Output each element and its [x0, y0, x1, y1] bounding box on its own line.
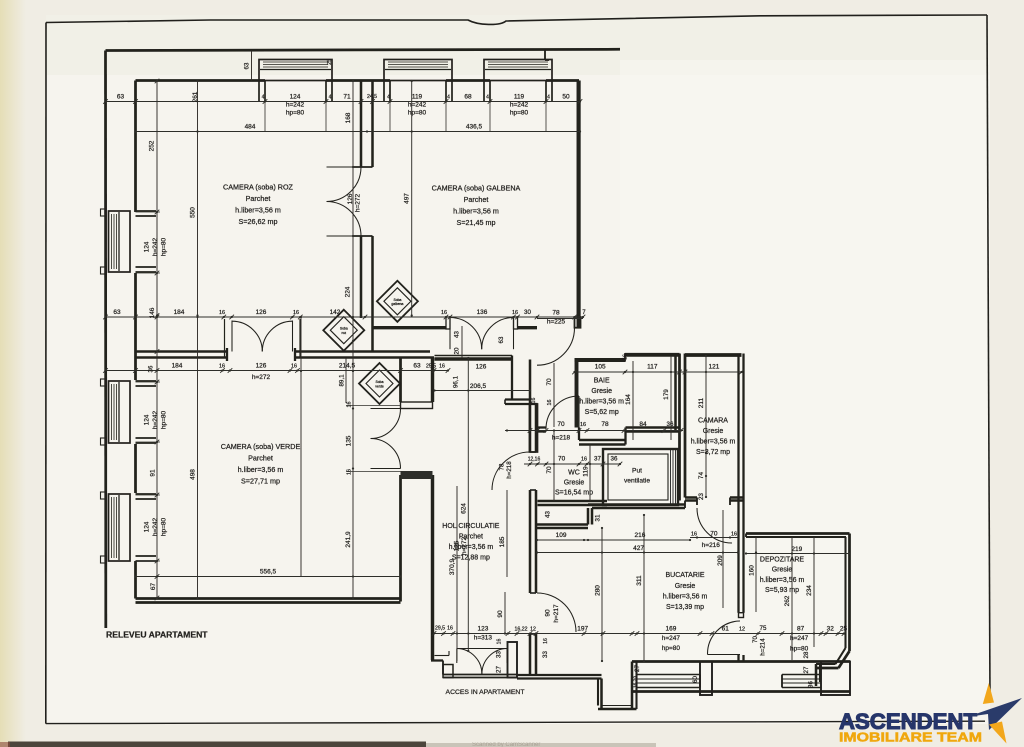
- svg-text:16: 16: [531, 398, 537, 404]
- svg-text:Parchet: Parchet: [464, 195, 489, 204]
- dim lines kitchen y=540 and y=552.5: [537, 539, 690, 541]
- svg-text:hp=80: hp=80: [408, 110, 427, 117]
- svg-text:25,5: 25,5: [426, 364, 436, 370]
- svg-text:32: 32: [827, 626, 835, 633]
- wall: west exterior outer line: [104, 51, 107, 629]
- svg-text:50: 50: [562, 94, 570, 101]
- svg-text:63: 63: [113, 309, 121, 316]
- svg-text:hp=80: hp=80: [662, 645, 681, 652]
- svg-text:556,5: 556,5: [260, 569, 277, 576]
- dim line DEPOZITARE y=553.5: [746, 553, 849, 555]
- svg-text:184: 184: [174, 309, 185, 316]
- svg-text:h=247: h=247: [790, 635, 809, 642]
- door D7 HOL-BUCATARIE (90 h=217): [537, 593, 576, 632]
- svg-text:25: 25: [327, 59, 333, 65]
- scan border bottom: [46, 721, 985, 723]
- jamb: [446, 317, 450, 329]
- svg-text:197: 197: [577, 626, 588, 633]
- svg-text:16,22: 16,22: [515, 627, 528, 633]
- svg-text:498: 498: [190, 469, 197, 480]
- north wall right step: [544, 50, 546, 61]
- svg-text:91: 91: [150, 469, 157, 477]
- dim line BAIE/CAMARA y=372: [575, 371, 742, 373]
- svg-text:h.liber=3,56 m: h.liber=3,56 m: [579, 399, 624, 406]
- scan border left: [45, 23, 47, 724]
- door D6 WC door from HOL (78 h=218): [492, 452, 530, 490]
- svg-text:30: 30: [524, 309, 531, 316]
- svg-text:h=225: h=225: [547, 319, 566, 326]
- svg-text:HOL CIRCULATIE: HOL CIRCULATIE: [442, 523, 500, 530]
- svg-text:Gresie: Gresie: [703, 428, 724, 435]
- svg-text:370,9: 370,9: [449, 558, 456, 575]
- DEPOZITARE walls: [746, 532, 850, 535]
- svg-text:90: 90: [497, 610, 504, 618]
- dim line CAMARA door y=537.5: [690, 537, 738, 539]
- vertical dim x=706 (211/74/23): [705, 356, 707, 497]
- svg-text:RELEVEU APARTAMENT: RELEVEU APARTAMENT: [106, 630, 208, 640]
- svg-text:126: 126: [256, 309, 267, 316]
- svg-text:h=242: h=242: [408, 102, 427, 109]
- svg-text:16: 16: [219, 364, 225, 370]
- svg-text:96,1: 96,1: [453, 375, 460, 388]
- svg-text:119: 119: [412, 94, 423, 101]
- entrance ACCES area: [431, 659, 443, 661]
- svg-text:h=313: h=313: [474, 635, 493, 642]
- door D10 kitchen east door (70 h=214): [707, 621, 740, 655]
- svg-text:70: 70: [558, 456, 566, 463]
- svg-text:78: 78: [499, 463, 506, 470]
- svg-text:verde: verde: [375, 384, 384, 388]
- svg-text:h.liber=3,56 m: h.liber=3,56 m: [663, 594, 708, 601]
- vertical dim chain x=157: [156, 81, 158, 598]
- svg-text:36: 36: [148, 365, 155, 372]
- svg-text:27: 27: [496, 666, 503, 673]
- svg-text:h=218: h=218: [552, 435, 571, 442]
- svg-text:119: 119: [514, 94, 525, 101]
- svg-text:16: 16: [512, 310, 518, 316]
- svg-text:hp=80: hp=80: [286, 110, 305, 117]
- svg-text:211: 211: [698, 397, 705, 408]
- svg-text:206,5: 206,5: [470, 383, 487, 390]
- svg-text:43: 43: [454, 331, 461, 338]
- svg-text:119: 119: [583, 466, 590, 477]
- svg-text:hp=80: hp=80: [510, 110, 529, 117]
- WC south wall: [538, 500, 608, 503]
- svg-text:87: 87: [797, 626, 805, 633]
- svg-text:WC: WC: [568, 470, 580, 477]
- svg-text:16: 16: [580, 422, 586, 428]
- svg-text:S=26,62 mp: S=26,62 mp: [239, 217, 278, 226]
- svg-text:484: 484: [245, 124, 256, 131]
- svg-text:29,5: 29,5: [435, 626, 445, 632]
- svg-text:hp=80: hp=80: [161, 517, 168, 536]
- svg-text:63: 63: [244, 62, 251, 69]
- wall: HOL east: [529, 360, 532, 453]
- door D5 double door VERDE-HOL (135): [371, 408, 401, 410]
- soba galbena stove: [377, 281, 418, 322]
- svg-text:16: 16: [441, 310, 447, 316]
- door D8 BAIE door (70 h=218): [546, 396, 579, 429]
- svg-text:126: 126: [476, 364, 487, 371]
- svg-text:142: 142: [330, 309, 341, 316]
- svg-text:261: 261: [192, 91, 199, 102]
- svg-text:27: 27: [634, 665, 641, 672]
- svg-text:75: 75: [760, 625, 767, 632]
- vertical dim x=457 (370,9): [456, 486, 458, 661]
- svg-text:h=242: h=242: [510, 102, 529, 109]
- wall between ROZ and VERDE: [136, 350, 228, 353]
- svg-text:CAMERA (soba) VERDE: CAMERA (soba) VERDE: [221, 442, 301, 451]
- dimension chain bottom y=633.5: [434, 633, 844, 635]
- wall: north exterior inner: [136, 79, 266, 82]
- window jamb extension lines: [264, 102, 266, 132]
- svg-text:S=3,72 mp: S=3,72 mp: [696, 449, 730, 456]
- svg-text:43: 43: [545, 511, 552, 518]
- svg-text:24,5: 24,5: [367, 94, 377, 100]
- vertical dim x=468.3 (624): [467, 358, 469, 651]
- soba roz stove: [323, 310, 364, 351]
- svg-text:135: 135: [346, 435, 353, 446]
- svg-text:16: 16: [291, 364, 297, 370]
- chamfer: [839, 651, 850, 668]
- svg-text:7: 7: [582, 309, 586, 316]
- svg-text:h=242: h=242: [152, 237, 159, 256]
- CAMARA walls: [685, 353, 742, 357]
- svg-text:16: 16: [691, 532, 697, 538]
- svg-text:184: 184: [172, 363, 183, 370]
- svg-text:126: 126: [347, 193, 354, 204]
- svg-text:160: 160: [748, 565, 755, 576]
- door D12 entrance double door (123 h=313): [457, 648, 507, 650]
- svg-text:hp=80: hp=80: [161, 237, 168, 256]
- svg-text:550: 550: [190, 207, 197, 218]
- svg-text:Put: Put: [632, 468, 642, 475]
- vertical dim x=505 (90): [504, 592, 506, 634]
- vertical dim x=590 (119): [589, 444, 591, 501]
- vertical dim x=756 (160): [755, 537, 757, 612]
- svg-text:146: 146: [149, 307, 156, 318]
- dimension chain y=430.5: [505, 430, 683, 432]
- svg-text:124: 124: [144, 241, 151, 252]
- svg-text:20: 20: [454, 347, 461, 354]
- svg-text:S=16,54 mp: S=16,54 mp: [555, 490, 593, 497]
- svg-text:241,9: 241,9: [345, 531, 352, 548]
- svg-text:168: 168: [345, 112, 352, 123]
- svg-text:31: 31: [594, 514, 601, 521]
- svg-text:70: 70: [546, 466, 553, 474]
- svg-text:hp=80: hp=80: [790, 646, 809, 653]
- vertical dim x=301: [300, 317, 302, 577]
- dimension chain y=131.5: [136, 131, 581, 133]
- door D1 double door ROZ-VERDE (126 h=272): [231, 321, 233, 352]
- svg-text:h.liber=3,56 m: h.liber=3,56 m: [691, 439, 736, 446]
- svg-text:4: 4: [329, 95, 332, 101]
- svg-text:126: 126: [256, 363, 267, 370]
- svg-text:S=21,45 mp: S=21,45 mp: [457, 218, 496, 227]
- svg-text:Gresie: Gresie: [675, 583, 696, 590]
- window W2 (124): [109, 381, 131, 443]
- svg-text:h=214: h=214: [760, 638, 767, 656]
- svg-text:33: 33: [542, 651, 549, 658]
- svg-text:4: 4: [486, 95, 489, 101]
- svg-text:164: 164: [625, 394, 632, 405]
- svg-text:16: 16: [497, 639, 503, 645]
- svg-text:16: 16: [731, 532, 737, 538]
- wall: west exterior inner: [134, 81, 137, 213]
- svg-text:h=247: h=247: [662, 635, 681, 642]
- svg-text:h=242: h=242: [152, 517, 159, 536]
- svg-text:70: 70: [710, 531, 718, 538]
- svg-text:Parchet: Parchet: [248, 454, 273, 463]
- svg-text:224: 224: [345, 286, 352, 297]
- Put ventilatie shaft: [603, 449, 678, 505]
- svg-text:galbena: galbena: [391, 302, 403, 306]
- svg-text:h.liber=3,56 m: h.liber=3,56 m: [760, 577, 805, 584]
- lobby south wall: [435, 355, 513, 357]
- svg-text:16: 16: [347, 402, 353, 408]
- svg-text:ACCES IN APARTAMENT: ACCES IN APARTAMENT: [446, 689, 525, 696]
- svg-text:109: 109: [556, 532, 567, 539]
- svg-text:216: 216: [634, 532, 645, 539]
- svg-text:4: 4: [547, 95, 550, 101]
- window N1 (124): [259, 60, 332, 81]
- wall: GALBENA east: [577, 81, 581, 328]
- svg-text:117: 117: [647, 364, 658, 371]
- svg-text:36: 36: [808, 681, 815, 688]
- svg-text:S=5,93 mp: S=5,93 mp: [765, 587, 799, 594]
- vertical dim x=644 (311): [643, 515, 645, 661]
- svg-text:179: 179: [663, 389, 670, 400]
- svg-text:124: 124: [290, 94, 301, 101]
- svg-text:h=242: h=242: [286, 102, 305, 109]
- svg-text:16: 16: [447, 626, 453, 632]
- svg-text:68: 68: [464, 94, 472, 101]
- partition wall ROZ/GALBENA: [360, 81, 363, 168]
- wall block: [530, 404, 538, 452]
- svg-text:33: 33: [496, 651, 503, 658]
- svg-text:234: 234: [806, 585, 813, 596]
- vertical dim x=723 (209): [722, 510, 724, 608]
- svg-text:12: 12: [530, 627, 536, 633]
- vertical dim x=197.5: [197, 81, 199, 598]
- scan border top: [46, 15, 987, 24]
- svg-text:Scanned by CamScanner: Scanned by CamScanner: [472, 742, 540, 747]
- jamb block: [443, 665, 453, 678]
- corner pier: [821, 662, 850, 696]
- svg-text:252: 252: [149, 140, 156, 151]
- svg-text:123: 123: [477, 626, 488, 633]
- vertical dim x=346 (89,1): [345, 358, 347, 403]
- svg-text:h=242: h=242: [152, 410, 159, 429]
- dimension chain y=370.5: [106, 370, 449, 372]
- svg-text:Gresie: Gresie: [591, 388, 612, 395]
- VERDE south wall: [136, 597, 401, 600]
- svg-text:311: 311: [636, 575, 643, 586]
- window N2 (119): [384, 60, 452, 81]
- wall: north exterior outer line: [106, 49, 621, 50]
- svg-text:63: 63: [117, 94, 125, 101]
- svg-text:136: 136: [477, 309, 488, 316]
- GALBENA south wall: [373, 316, 447, 318]
- svg-text:60: 60: [692, 676, 699, 683]
- pier: [700, 662, 712, 696]
- svg-text:124: 124: [144, 414, 151, 425]
- svg-text:280: 280: [594, 585, 601, 596]
- svg-text:4: 4: [262, 95, 265, 101]
- vertical dim x=353: [352, 81, 354, 598]
- svg-text:36: 36: [611, 456, 618, 463]
- BAIE south side walls: [538, 426, 547, 428]
- svg-text:4: 4: [447, 95, 450, 101]
- svg-text:61: 61: [722, 626, 730, 633]
- svg-text:78: 78: [552, 310, 560, 317]
- svg-text:4: 4: [387, 95, 390, 101]
- svg-text:497: 497: [404, 193, 411, 204]
- jamb block: [508, 642, 518, 678]
- vertical dim x=411.7 (497): [411, 81, 413, 316]
- window S2 (36): [782, 674, 821, 676]
- svg-text:hp=80: hp=80: [161, 410, 168, 429]
- svg-text:70: 70: [546, 378, 553, 386]
- svg-text:25: 25: [840, 626, 848, 633]
- svg-text:h.liber=3,56 m: h.liber=3,56 m: [238, 465, 284, 474]
- svg-text:78: 78: [601, 421, 609, 428]
- svg-text:209: 209: [717, 555, 724, 566]
- svg-text:CAMARA: CAMARA: [698, 418, 728, 425]
- svg-text:185: 185: [499, 536, 506, 547]
- svg-text:h.liber=3,56 m: h.liber=3,56 m: [235, 206, 281, 215]
- svg-text:ventilatie: ventilatie: [624, 478, 650, 485]
- svg-text:Parchet: Parchet: [246, 194, 271, 203]
- dimension chain y=464: [524, 463, 620, 465]
- svg-text:CAMERA (soba) GALBENA: CAMERA (soba) GALBENA: [432, 184, 521, 193]
- vertical dim x=671 (179): [670, 356, 672, 440]
- svg-text:h=272: h=272: [461, 536, 468, 555]
- svg-text:h=272: h=272: [355, 193, 362, 212]
- corner block: [575, 317, 581, 328]
- scan debris bottom strip: [8, 742, 426, 747]
- svg-text:427: 427: [633, 545, 644, 552]
- svg-text:16: 16: [547, 400, 553, 406]
- svg-text:BAIE: BAIE: [594, 378, 610, 385]
- vertical dim x=792 (262): [791, 537, 793, 660]
- svg-text:h=216: h=216: [702, 542, 721, 549]
- svg-text:219: 219: [791, 546, 802, 553]
- svg-text:63: 63: [498, 336, 505, 343]
- vertical dim x=462 (63/20): [461, 326, 463, 358]
- svg-text:37: 37: [594, 456, 601, 463]
- svg-text:roz: roz: [341, 331, 346, 335]
- svg-text:S=13,39 mp: S=13,39 mp: [666, 604, 704, 611]
- door D2 double door ROZ-GALBENA (126 h=272): [327, 166, 362, 168]
- window W1 (124): [109, 211, 131, 272]
- door D9 CAMARA door (70 h=216): [697, 508, 732, 543]
- vertical dim x=602 (280): [601, 528, 603, 661]
- BAIE north wall: [575, 358, 626, 362]
- svg-text:Gresie: Gresie: [564, 480, 585, 487]
- svg-text:16: 16: [623, 354, 629, 360]
- svg-text:436,5: 436,5: [466, 124, 483, 131]
- vertical dim x=814 (234): [813, 537, 815, 647]
- svg-text:23: 23: [698, 493, 705, 500]
- svg-text:105: 105: [595, 364, 606, 371]
- svg-text:214,5: 214,5: [339, 363, 356, 370]
- dim vertical at window N1 left: [251, 51, 253, 81]
- svg-text:74: 74: [698, 472, 705, 480]
- vertical dim x=554 BAIE: [553, 363, 555, 427]
- svg-text:h=217: h=217: [553, 604, 560, 623]
- svg-text:16: 16: [543, 638, 549, 644]
- svg-text:262: 262: [784, 595, 791, 606]
- dim line GALBENA door y=318.5: [537, 318, 583, 320]
- vertical dim x=507 (185): [506, 490, 508, 577]
- svg-text:12: 12: [739, 627, 745, 633]
- wall VERDE east / HOL west: [399, 358, 402, 402]
- svg-text:IMOBILIARE TEAM: IMOBILIARE TEAM: [839, 731, 982, 745]
- wall end cap: [739, 613, 744, 618]
- dimension chain top y=101.5: [106, 101, 581, 103]
- svg-text:28: 28: [803, 651, 810, 658]
- svg-text:16: 16: [439, 364, 445, 370]
- svg-text:16: 16: [581, 457, 587, 463]
- south exterior wall of BUCATARIE/DEPOZITARE: [632, 660, 850, 663]
- svg-text:16,20: 16,20: [633, 676, 639, 688]
- svg-text:67: 67: [150, 583, 157, 591]
- south wall left connectors: [631, 662, 634, 710]
- svg-text:CAMERA (soba) ROZ: CAMERA (soba) ROZ: [223, 183, 294, 192]
- svg-text:Gresie: Gresie: [772, 567, 793, 574]
- svg-text:71: 71: [343, 94, 351, 101]
- scan border right: [987, 15, 990, 699]
- BAIE west wall: [575, 362, 579, 428]
- svg-text:h=218: h=218: [506, 461, 513, 479]
- svg-text:36: 36: [667, 421, 674, 428]
- left paper edge tint: [0, 0, 26, 747]
- door jamb plate: [401, 471, 433, 479]
- svg-text:h=272: h=272: [252, 374, 271, 381]
- svg-text:84: 84: [639, 421, 647, 428]
- svg-text:624: 624: [461, 503, 468, 514]
- door D4 double door GALBENA-lobby (136): [449, 318, 451, 350]
- wall BUCATARIE east: [737, 501, 739, 613]
- soba verde stove: [359, 363, 400, 404]
- window S1 (60): [637, 674, 701, 676]
- jamb: [514, 317, 518, 329]
- svg-text:70: 70: [752, 636, 759, 643]
- svg-text:125: 125: [454, 540, 461, 551]
- svg-text:121: 121: [708, 364, 719, 371]
- svg-text:70: 70: [557, 421, 565, 428]
- vertical dim x=633 (164): [632, 361, 634, 440]
- svg-text:12,16: 12,16: [528, 457, 541, 463]
- svg-text:63: 63: [413, 363, 421, 370]
- svg-text:S=12,88 mp: S=12,88 mp: [452, 555, 490, 562]
- svg-text:89,1: 89,1: [339, 374, 346, 387]
- svg-text:27: 27: [803, 666, 810, 673]
- dimension chain y=317: [106, 316, 584, 318]
- svg-text:16: 16: [347, 469, 353, 475]
- logo star: [983, 683, 994, 704]
- svg-text:124: 124: [144, 521, 151, 532]
- BAIE east wall / CAMARA west: [674, 357, 677, 432]
- svg-text:DEPOZITARE: DEPOZITARE: [760, 557, 805, 564]
- svg-text:h.liber=3,56 m: h.liber=3,56 m: [453, 207, 499, 216]
- svg-text:S=5,62 mp: S=5,62 mp: [585, 409, 619, 416]
- dimension chain y=390.5 (206,5): [435, 390, 531, 392]
- svg-text:S=27,71 mp: S=27,71 mp: [241, 477, 280, 486]
- svg-text:16: 16: [293, 310, 299, 316]
- door jamb plate: [401, 402, 433, 409]
